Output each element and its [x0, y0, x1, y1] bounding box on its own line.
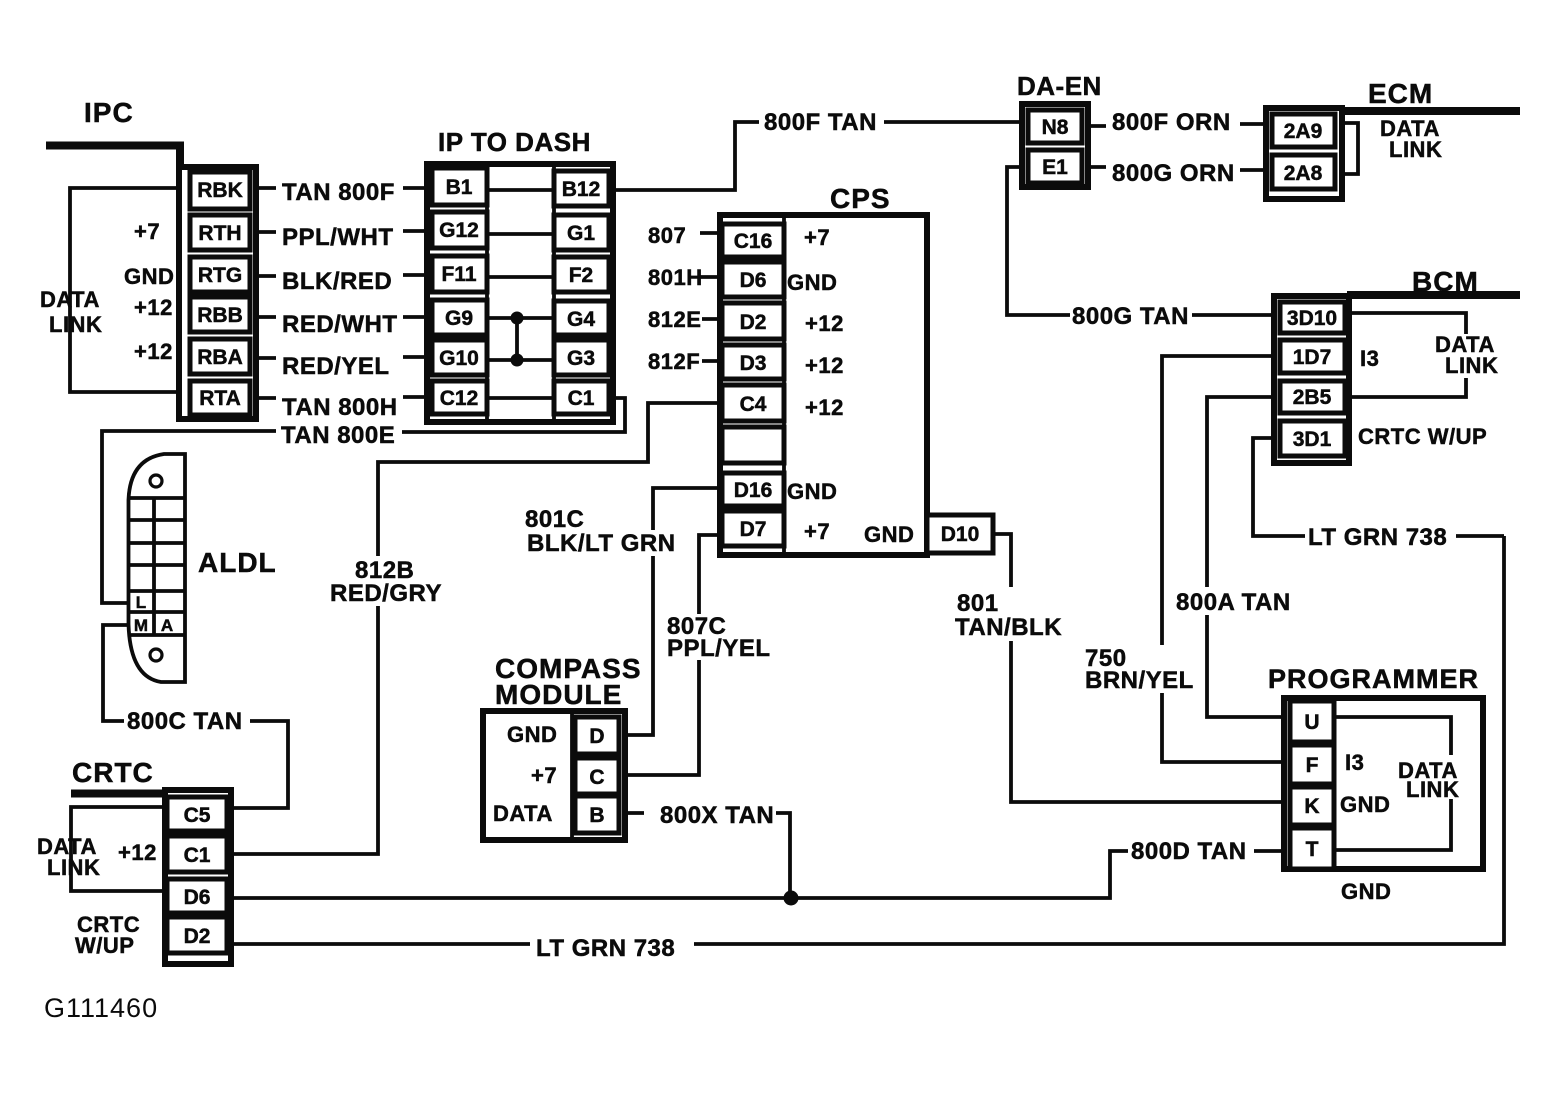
- wire B1-B12: [487, 188, 554, 192]
- svg-text:DA-EN: DA-EN: [1017, 71, 1102, 101]
- svg-text:CRTC: CRTC: [72, 757, 154, 788]
- wire N8 to ECM 2A9 (800F ORN): [1082, 124, 1272, 126]
- pin F2: [554, 257, 609, 292]
- svg-text:800C TAN: 800C TAN: [127, 708, 243, 735]
- svg-text:GND: GND: [1340, 792, 1390, 817]
- pin E1: [1028, 150, 1082, 183]
- svg-text:801: 801: [957, 590, 999, 617]
- svg-text:800G ORN: 800G ORN: [1112, 160, 1235, 187]
- wire BCM 3D1 LT GRN 738: [1253, 438, 1504, 536]
- svg-text:1D7: 1D7: [1293, 346, 1332, 369]
- svg-text:+7: +7: [531, 763, 557, 788]
- svg-text:801H: 801H: [648, 265, 703, 290]
- svg-text:CPS: CPS: [830, 183, 891, 214]
- svg-text:LINK: LINK: [47, 855, 100, 880]
- svg-text:D7: D7: [740, 518, 767, 541]
- pin RBB: [190, 297, 250, 332]
- pin RTA: [190, 381, 250, 415]
- svg-text:800X TAN: 800X TAN: [660, 802, 774, 829]
- svg-text:RBK: RBK: [197, 179, 243, 202]
- svg-text:T: T: [1306, 838, 1319, 861]
- pin G9: [432, 300, 487, 335]
- pin RBK: [190, 172, 250, 209]
- svg-text:812F: 812F: [648, 349, 700, 374]
- svg-text:PROGRAMMER: PROGRAMMER: [1268, 664, 1479, 694]
- pin 3D1: [1280, 421, 1345, 456]
- aldl top keyway: [150, 475, 162, 487]
- pin 2A8: [1272, 155, 1335, 189]
- pin D2: [722, 303, 784, 339]
- svg-text:B12: B12: [562, 178, 601, 201]
- pin 3D10: [1280, 302, 1345, 333]
- connector COMPASS MODULE: [483, 711, 625, 840]
- pin blank: [722, 427, 784, 463]
- wire CRTC D6 to junction to 800D TAN: [227, 851, 1290, 898]
- svg-text:GND: GND: [124, 264, 174, 289]
- svg-text:L: L: [136, 593, 146, 612]
- svg-text:G4: G4: [567, 308, 595, 331]
- svg-text:IP TO DASH: IP TO DASH: [438, 127, 591, 157]
- wire 812E dash: [702, 317, 722, 321]
- svg-text:801C: 801C: [525, 506, 584, 533]
- pin K: [1290, 787, 1334, 825]
- svg-text:C1: C1: [184, 844, 211, 867]
- pin D2: [167, 917, 227, 953]
- pin G1: [554, 215, 609, 250]
- svg-text:800A TAN: 800A TAN: [1176, 589, 1291, 616]
- node G10 tie: [511, 354, 524, 367]
- svg-text:+12: +12: [805, 353, 844, 378]
- wire CRTC D2 LT GRN 738 bottom run: [227, 536, 1504, 944]
- label 812B RED/GRY: [328, 556, 446, 606]
- wire E1 to ECM 2A8 (800G ORN): [1082, 167, 1272, 170]
- pin D10: [927, 515, 993, 553]
- svg-text:CRTC W/UP: CRTC W/UP: [1358, 424, 1487, 449]
- pin C16: [722, 224, 784, 257]
- svg-text:K: K: [1304, 795, 1319, 818]
- wire G12-G1: [487, 232, 554, 236]
- pin RTG: [190, 257, 250, 292]
- svg-text:2A9: 2A9: [1284, 120, 1323, 143]
- wire compass D to CPS D16 (801C BLK/LT GRN): [619, 488, 722, 735]
- svg-text:800G TAN: 800G TAN: [1072, 303, 1189, 330]
- wire 812F dash: [702, 359, 722, 363]
- wire programmer internal data-link loop U-T: [1334, 717, 1451, 850]
- connector PROGRAMMER: [1284, 698, 1483, 869]
- svg-text:+12: +12: [134, 295, 173, 320]
- pin C1: [167, 836, 227, 872]
- svg-text:800F TAN: 800F TAN: [764, 109, 877, 136]
- svg-text:D: D: [589, 725, 604, 748]
- wire B12 to DA-EN N8 (800F TAN): [609, 122, 1028, 190]
- svg-text:DATA: DATA: [493, 801, 553, 826]
- svg-text:+7: +7: [804, 519, 830, 544]
- pin D6: [167, 879, 227, 913]
- wire E1 to BCM 3D10 (800G TAN): [1007, 167, 1280, 315]
- pin B: [575, 796, 619, 833]
- svg-text:RED/YEL: RED/YEL: [282, 353, 390, 380]
- svg-text:F: F: [1306, 754, 1319, 777]
- svg-text:C5: C5: [184, 804, 211, 827]
- wire RBA to G10 (RED/YEL): [256, 357, 430, 358]
- wire BCM 2B5 to programmer U (800A TAN): [1207, 397, 1290, 717]
- label BCM DATA LINK: [1432, 334, 1506, 378]
- wire ECM data-link loop 2A9-2A8: [1340, 123, 1358, 174]
- svg-text:PPL/WHT: PPL/WHT: [282, 224, 394, 251]
- pin C1: [554, 381, 609, 414]
- wire CRTC C1 to CPS C4 (812B RED/GRY): [227, 403, 722, 854]
- svg-text:RTA: RTA: [199, 387, 241, 410]
- svg-text:LINK: LINK: [1406, 777, 1459, 802]
- wire 801H dash: [700, 275, 722, 279]
- svg-text:LINK: LINK: [49, 312, 102, 337]
- module bar CRTC: [71, 790, 166, 798]
- pin T: [1290, 828, 1334, 869]
- connector IP TO DASH: [427, 164, 613, 422]
- pin B12: [554, 171, 609, 206]
- svg-text:+12: +12: [134, 339, 173, 364]
- svg-text:I3: I3: [1360, 346, 1379, 371]
- svg-text:C4: C4: [740, 393, 767, 416]
- svg-text:800F ORN: 800F ORN: [1112, 109, 1231, 136]
- svg-text:TAN 800F: TAN 800F: [282, 179, 395, 206]
- svg-text:G9: G9: [445, 307, 473, 330]
- wire RTA to C12 (TAN 800H): [256, 397, 430, 398]
- svg-text:D6: D6: [184, 886, 211, 909]
- svg-text:BLK/RED: BLK/RED: [282, 268, 392, 295]
- pin 1D7: [1280, 340, 1345, 373]
- svg-text:D16: D16: [734, 479, 773, 502]
- svg-text:GND: GND: [507, 722, 557, 747]
- svg-text:D2: D2: [740, 311, 767, 334]
- pin 2A9: [1272, 114, 1335, 147]
- svg-text:RTH: RTH: [198, 222, 241, 245]
- pin D: [575, 717, 619, 754]
- label 800A TAN: [1173, 587, 1297, 615]
- svg-text:B1: B1: [446, 176, 473, 199]
- pin C5: [167, 797, 227, 831]
- svg-text:BLK/LT GRN: BLK/LT GRN: [527, 530, 676, 557]
- wire G9-G4: [487, 316, 554, 320]
- svg-text:G111460: G111460: [44, 993, 158, 1023]
- svg-text:M: M: [134, 616, 148, 635]
- wire G10-G3: [487, 358, 554, 362]
- svg-text:LT GRN 738: LT GRN 738: [1308, 524, 1447, 551]
- connector CPS: [720, 215, 993, 555]
- pin C4: [722, 385, 784, 421]
- svg-text:LINK: LINK: [1389, 137, 1442, 162]
- svg-text:BRN/YEL: BRN/YEL: [1085, 667, 1194, 694]
- connector BCM pins: [1274, 296, 1349, 463]
- svg-text:C1: C1: [568, 387, 595, 410]
- label 807C PPL/YEL: [664, 614, 766, 660]
- wire RBK to B1 (TAN 800F): [256, 186, 430, 190]
- svg-text:RED/GRY: RED/GRY: [330, 580, 442, 607]
- module bar ECM: [1339, 107, 1520, 115]
- wire RBB to G9 (RED/WHT): [256, 315, 430, 319]
- svg-text:LT GRN 738: LT GRN 738: [536, 935, 675, 962]
- svg-text:GND: GND: [1341, 879, 1391, 904]
- svg-text:IPC: IPC: [84, 97, 134, 128]
- wire BCM data-link loop 3D10-2B5: [1348, 313, 1466, 397]
- svg-text:D3: D3: [740, 352, 767, 375]
- svg-text:G3: G3: [567, 347, 595, 370]
- svg-text:D2: D2: [184, 925, 211, 948]
- svg-text:+12: +12: [805, 395, 844, 420]
- wire ALDL M to 800C TAN to CRTC C5: [103, 625, 288, 808]
- pin B1: [432, 168, 487, 205]
- svg-text:G12: G12: [439, 219, 479, 242]
- svg-text:800D TAN: 800D TAN: [1131, 838, 1247, 865]
- svg-text:RTG: RTG: [198, 264, 242, 287]
- svg-text:RED/WHT: RED/WHT: [282, 311, 397, 338]
- wire compass C to CPS D7 (807C PPL/YEL): [619, 535, 722, 775]
- svg-text:I3: I3: [1345, 750, 1364, 775]
- svg-text:E1: E1: [1042, 156, 1068, 179]
- pin D7: [722, 511, 784, 546]
- svg-text:LINK: LINK: [1445, 353, 1498, 378]
- svg-text:DATA: DATA: [40, 287, 100, 312]
- label 801C BLK/LT GRN: [525, 530, 677, 556]
- svg-text:F2: F2: [569, 264, 594, 287]
- label programmer DATA LINK: [1395, 755, 1471, 799]
- svg-text:+12: +12: [805, 311, 844, 336]
- pin RBA: [190, 339, 250, 374]
- connector DA-EN: [1022, 104, 1088, 187]
- svg-text:B: B: [589, 804, 604, 827]
- wire 807 dash: [700, 231, 722, 235]
- pin U: [1290, 701, 1334, 742]
- wire TAN 800E from ALDL-L up to IP TO DASH C1: [102, 398, 625, 603]
- pin D3: [722, 345, 784, 379]
- pin N8: [1028, 110, 1082, 143]
- connector CRTC: [165, 790, 231, 964]
- svg-text:N8: N8: [1042, 116, 1069, 139]
- label 750 BRN/YEL: [1082, 645, 1195, 693]
- svg-text:2B5: 2B5: [1293, 386, 1332, 409]
- svg-text:BCM: BCM: [1412, 266, 1479, 297]
- pin D16: [722, 473, 784, 506]
- pin G10: [432, 340, 487, 375]
- wire BCM 1D7 to programmer F (750 BRN/YEL): [1162, 356, 1290, 762]
- svg-text:812E: 812E: [648, 307, 701, 332]
- node G9 tie: [511, 312, 524, 325]
- label 801 TAN/BLK: [952, 587, 1064, 641]
- svg-text:ECM: ECM: [1368, 78, 1433, 109]
- svg-text:PPL/YEL: PPL/YEL: [667, 635, 771, 662]
- pin 2B5: [1280, 381, 1345, 413]
- pin D6: [722, 262, 784, 297]
- svg-text:U: U: [1304, 711, 1319, 734]
- svg-text:F11: F11: [441, 263, 476, 286]
- svg-text:3D1: 3D1: [1293, 428, 1332, 451]
- pin F: [1290, 745, 1334, 784]
- module bar BCM: [1347, 291, 1520, 299]
- svg-text:TAN 800E: TAN 800E: [281, 422, 395, 449]
- svg-text:TAN 800H: TAN 800H: [282, 394, 398, 421]
- connector ALDL: [129, 454, 186, 682]
- svg-text:C: C: [589, 766, 604, 789]
- wire IPC data-link bracket: [70, 188, 179, 392]
- svg-text:A: A: [161, 616, 173, 635]
- wire RTH to G12 (PPL/WHT): [256, 231, 430, 232]
- pin F11: [432, 256, 487, 292]
- wire compass B 800X TAN down to junction: [619, 813, 790, 898]
- pin C: [575, 758, 619, 794]
- svg-text:+7: +7: [134, 219, 160, 244]
- pin G3: [554, 340, 609, 375]
- svg-text:W/UP: W/UP: [75, 933, 134, 958]
- svg-text:RBB: RBB: [197, 304, 243, 327]
- svg-text:MODULE: MODULE: [495, 679, 622, 710]
- svg-text:807: 807: [648, 223, 686, 248]
- svg-text:ALDL: ALDL: [198, 547, 277, 578]
- pin C12: [432, 381, 487, 414]
- module bar IPC: [46, 146, 180, 168]
- connector ECM pins: [1266, 108, 1342, 199]
- svg-text:D6: D6: [740, 269, 767, 292]
- svg-text:TAN/BLK: TAN/BLK: [955, 614, 1062, 641]
- pin G4: [554, 301, 609, 335]
- pin G12: [432, 212, 487, 248]
- svg-text:GND: GND: [787, 479, 837, 504]
- svg-text:2A8: 2A8: [1284, 162, 1323, 185]
- wire CPS D10 to programmer K (801 TAN/BLK): [993, 534, 1290, 802]
- wire C12-C1: [487, 396, 554, 400]
- svg-text:C12: C12: [440, 387, 479, 410]
- svg-text:D10: D10: [941, 523, 980, 546]
- junction node 800X/800D/D6: [784, 891, 799, 906]
- wire tie G9/G10: [515, 318, 519, 360]
- svg-text:RBA: RBA: [197, 346, 243, 369]
- svg-text:+12: +12: [118, 840, 157, 865]
- svg-text:GND: GND: [864, 522, 914, 547]
- wire RTG to F11 (BLK/RED): [256, 275, 430, 276]
- svg-text:C16: C16: [734, 230, 773, 253]
- svg-text:+7: +7: [804, 225, 830, 250]
- svg-text:3D10: 3D10: [1287, 307, 1337, 330]
- svg-text:GND: GND: [787, 270, 837, 295]
- aldl bottom keyway: [150, 649, 162, 661]
- wire F11-F2: [487, 275, 554, 279]
- svg-text:G10: G10: [439, 347, 479, 370]
- connector IPC: [179, 167, 256, 419]
- pin RTH: [190, 215, 250, 250]
- wire CRTC data-link bracket: [71, 807, 165, 891]
- svg-text:G1: G1: [567, 222, 595, 245]
